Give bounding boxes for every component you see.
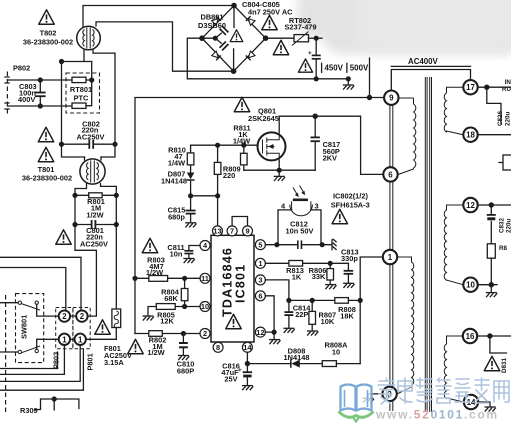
svg-text:T802: T802 [40, 29, 57, 38]
capacitor C810 [179, 334, 188, 355]
node source row [277, 168, 282, 173]
warning triangle left of RT802 [273, 40, 288, 54]
wire bridge plus to RT802 [266, 37, 294, 39]
svg-text:10: 10 [332, 347, 340, 356]
wire nested feed to P801 pin2 top [0, 257, 81, 310]
ground on bridge minus rail [343, 79, 354, 90]
diode D807 [187, 173, 195, 196]
resistor R808A [322, 361, 360, 367]
transformer pin 18 [463, 128, 477, 142]
wire left edge to SW801 lower [0, 351, 18, 353]
capacitor C815 [186, 196, 196, 222]
ground below C813 [343, 283, 354, 288]
wire C826 branch [487, 87, 501, 124]
wire R808 to feedback vertical [348, 299, 360, 301]
node C803 bottom [38, 103, 43, 108]
resistor R803 [135, 276, 200, 282]
node row left [188, 193, 193, 198]
node rail junction [367, 95, 372, 100]
svg-text:8: 8 [216, 343, 220, 352]
transformer pin 12 [463, 198, 477, 212]
connector pin P803-1 [59, 334, 70, 345]
capacitor C804 (inside bridge upper) [220, 26, 229, 35]
connector edge dashed left bottom [5, 295, 7, 415]
svg-text:1: 1 [388, 253, 393, 262]
svg-text:P802: P802 [13, 64, 30, 73]
svg-text:680P: 680P [177, 367, 194, 376]
ground below R807 [307, 331, 318, 336]
wire left rail jog down to P801 pin2 [75, 225, 96, 317]
svg-text:C826: C826 [497, 110, 504, 126]
connector pin P801-2 [76, 310, 87, 321]
ground at pin14 [485, 407, 496, 412]
winding feedback 1-3 [397, 257, 414, 394]
svg-text:AC400V: AC400V [408, 57, 439, 66]
resistor R8xx snubber [487, 244, 495, 285]
wire lower row to R808 [289, 299, 335, 301]
optocoupler IC802 photodiode side [278, 186, 321, 245]
transformer pin 14 [464, 395, 478, 409]
node bridge apex [231, 3, 237, 9]
svg-text:10n 50V: 10n 50V [286, 227, 314, 236]
node R801 left [72, 193, 77, 198]
wire left edge bottom return [0, 349, 83, 390]
wire zener branch [490, 336, 507, 353]
svg-text:10: 10 [201, 302, 209, 311]
resistor R805 [148, 304, 175, 315]
pin 14 [242, 342, 252, 352]
ground below C816 [242, 386, 253, 391]
wire pin14 to C816 row [246, 352, 248, 363]
pin 10 [200, 302, 210, 312]
wire pin14 to ground [478, 402, 490, 406]
node pin16 [487, 333, 492, 338]
wire pin10 output [478, 284, 497, 286]
svg-text:1/4W: 1/4W [233, 137, 250, 146]
warning triangle below RT802 [298, 59, 312, 72]
node T802 bottom-left [59, 59, 64, 64]
wire left rail P802/C803 node down to C802 left [61, 62, 63, 145]
warning triangle above T802 [39, 10, 54, 24]
wire transformer pin1 to feedback vertical down to R808A row [360, 257, 383, 364]
wire P801 pin1 down to left edge [0, 345, 80, 381]
svg-text:3: 3 [258, 276, 262, 285]
pin 5 [255, 240, 265, 250]
op-amp-style IC U801 TDA16846 box [211, 235, 254, 342]
bridge rectifier DB801 diamond [202, 6, 266, 72]
svg-text:12: 12 [466, 201, 475, 210]
wire Q801 drain node to transformer pin6 [279, 116, 383, 174]
svg-text:220u: 220u [505, 111, 511, 126]
transformer pin 6 [383, 167, 397, 181]
wire pin1 row [265, 262, 348, 264]
winding secondary 16-14 [444, 336, 463, 402]
wire SW801 lower to P803 pin1 [37, 339, 59, 349]
svg-text:9: 9 [245, 227, 249, 236]
node C816 top [245, 361, 250, 366]
resistor R811 [241, 145, 248, 170]
svg-text:220u: 220u [506, 218, 511, 233]
label 500V with tick [347, 63, 369, 72]
switch SW801 upper contacts and blade [18, 301, 40, 310]
ground below C810 [178, 356, 189, 361]
wire P803 pin1 down to left edge [0, 345, 64, 374]
capacitor C813 [344, 263, 354, 282]
diode DB801 upper-left [212, 16, 221, 25]
wire AC400V measure bracket [391, 66, 470, 90]
transformer pin 10 [463, 278, 477, 292]
svg-text:P801: P801 [86, 353, 95, 370]
thermistor RT801 dashed box [66, 73, 100, 113]
pin 4 [200, 241, 210, 251]
svg-text:SW801: SW801 [20, 315, 29, 339]
ground below pin10 wire [486, 285, 497, 298]
capacitor C802 [62, 140, 116, 149]
svg-text:PTC: PTC [74, 94, 89, 103]
svg-text:SFH615A-3: SFH615A-3 [331, 201, 370, 210]
capacitor C812 [298, 240, 302, 249]
svg-text:1/2W: 1/2W [147, 348, 164, 357]
node R804 bottom [182, 304, 187, 309]
svg-text:R309: R309 [20, 406, 38, 415]
wire nested feed to P803 pin2 top [0, 268, 66, 311]
svg-text:7: 7 [230, 227, 234, 236]
node pin12 [489, 202, 494, 207]
svg-text:680p: 680p [168, 213, 185, 222]
svg-text:P803: P803 [52, 352, 61, 369]
node row right [215, 193, 220, 198]
mosfet Q801 [258, 132, 286, 160]
ground below Q801 source [274, 170, 285, 181]
connector pin P803-2 [59, 310, 70, 321]
resistor R813 [289, 261, 303, 267]
capacitor C803 [35, 80, 46, 106]
transformer pin 9 [384, 91, 398, 105]
winding secondary 12-10 [444, 205, 463, 285]
node lower row R807 [310, 298, 315, 303]
svg-text:1N4148: 1N4148 [161, 177, 187, 186]
pin 13 [213, 226, 223, 236]
ground below C815 [185, 223, 196, 228]
pin 11 [200, 273, 210, 283]
wire blob vertical to rail [369, 58, 371, 98]
svg-text:2SK2645: 2SK2645 [248, 114, 279, 123]
svg-text:1: 1 [78, 335, 83, 344]
node bridge left [199, 35, 205, 41]
svg-text:10K: 10K [321, 317, 335, 326]
wire pin3 to lower row [265, 280, 289, 301]
svg-text:11: 11 [201, 274, 209, 283]
resistor RT801 top element [72, 77, 86, 82]
node C801 left [72, 222, 77, 227]
capacitor C832 snubber [487, 205, 496, 244]
svg-text:18K: 18K [340, 312, 354, 321]
watermark book base (green) [339, 412, 374, 418]
node pin5 row left [274, 242, 279, 247]
svg-text:R8: R8 [499, 245, 508, 252]
node bridge bottom [231, 68, 237, 74]
ground sideways right of C812 [332, 239, 337, 250]
node RT801 right [89, 77, 94, 82]
node pin17 [484, 85, 489, 90]
wire between pin1 circles [70, 338, 75, 340]
diode DB801 lower-right [246, 51, 255, 60]
svg-text:3.15A: 3.15A [104, 358, 124, 367]
resistor R809 [214, 145, 221, 196]
connector P802 (dashed, cut at edge) [6, 72, 8, 114]
watermark book icon [341, 385, 372, 411]
svg-text:10: 10 [466, 281, 475, 290]
wire bridge minus rail [187, 38, 348, 79]
svg-text:17: 17 [466, 83, 475, 92]
warning triangle top near C804 [262, 15, 277, 29]
warning triangle inside IC801 [226, 314, 241, 328]
pin 3 [255, 275, 265, 285]
svg-text:22P: 22P [295, 310, 308, 319]
svg-text:5: 5 [258, 240, 262, 249]
resistor R808 [335, 298, 349, 304]
resistor R806 [327, 263, 334, 283]
capacitor C817 [311, 116, 320, 170]
resistor R801 [89, 193, 102, 198]
resistor RT801 bottom element [72, 103, 86, 108]
wire R801 row [75, 194, 116, 196]
pin 6 [255, 291, 265, 301]
wire left edge to SW801 upper [0, 302, 18, 304]
winding primary 9-6 [399, 98, 416, 174]
svg-text:450V: 450V [325, 64, 344, 73]
svg-text:4n7 250V AC: 4n7 250V AC [248, 8, 293, 17]
node gate row R809 [215, 143, 220, 148]
svg-text:36-238300-002: 36-238300-002 [23, 38, 73, 47]
svg-text:36-238300-002: 36-238300-002 [22, 174, 72, 183]
svg-text:D831: D831 [501, 357, 508, 373]
svg-text:IN: IN [505, 79, 511, 86]
wire top AC run from T802 to bridge apex [83, 6, 234, 27]
warning triangle near F801 [95, 320, 110, 334]
svg-text:TDA16846: TDA16846 [221, 247, 235, 317]
node R309 [52, 396, 57, 401]
resistor R804 [181, 278, 188, 306]
node R802 right / C810 top [181, 331, 186, 336]
transformer T802 [77, 26, 101, 50]
ground below R806 [325, 285, 336, 290]
resistor R810 [187, 145, 194, 172]
transformer pin 17 [463, 80, 477, 94]
svg-text:1/2W: 1/2W [86, 211, 103, 220]
warning triangle inside bridge [230, 30, 243, 42]
ground below C814 [283, 328, 294, 333]
node C802 right [112, 142, 117, 147]
wire transformer primary-side long pair [390, 104, 393, 411]
node bridge right [263, 35, 269, 41]
transformer T803 core [425, 77, 431, 412]
warning triangle above Q801 [234, 97, 249, 111]
connector pin P801-1 [75, 334, 86, 345]
capacitor C814 [284, 300, 293, 327]
node C817 top [313, 114, 318, 119]
wire pin18 output [478, 134, 511, 136]
svg-text:2: 2 [62, 312, 67, 321]
node ground junction on minus rail [346, 76, 351, 81]
svg-text:IC801: IC801 [234, 264, 248, 303]
transformer T801 [80, 157, 105, 184]
svg-text:2KV: 2KV [323, 154, 337, 163]
node lower row left [286, 298, 291, 303]
svg-text:2: 2 [80, 312, 85, 321]
svg-text:3: 3 [315, 202, 319, 211]
switch SW801 lower contacts and blade [18, 346, 40, 354]
svg-text:9: 9 [389, 94, 394, 103]
node R801 right [114, 193, 119, 198]
svg-text:500V: 500V [350, 64, 369, 73]
svg-text:www.520101.com: www.520101.com [375, 408, 499, 422]
wire SW801 upper to P803 pin2 [37, 304, 59, 316]
wire bridge inner cap links [202, 6, 234, 72]
transformer pin 1 [383, 250, 397, 264]
svg-text:1N4148: 1N4148 [284, 353, 310, 362]
svg-text:68K: 68K [164, 294, 178, 303]
wire 450V rail to transformer pin9 and left rail down [135, 98, 384, 334]
switch SW801 dashed box [16, 294, 44, 363]
capacitor C805 (inside bridge lower) [220, 41, 229, 50]
warning triangle above R803 [142, 238, 157, 252]
node pin1 row R806 [328, 261, 333, 266]
wire rails R801 to C801 [75, 195, 116, 224]
warning triangle below IC802 label [332, 209, 347, 223]
wire pin16 output [477, 335, 511, 337]
node C801 right [114, 222, 119, 227]
wire pin10 row [175, 306, 200, 308]
wire P802 pin1 to RT801 [7, 79, 72, 81]
svg-text:400V: 400V [18, 95, 35, 104]
capacitor C818 [308, 38, 321, 79]
diode DB801 lower-left [212, 51, 221, 60]
node C818 bottom junction [314, 76, 319, 81]
warning triangle left of R802 [128, 339, 143, 353]
wire C802 to T801 top legs [62, 144, 116, 157]
wire fuse bottom to P801 pin1 [86, 328, 116, 340]
wire source row with ground [244, 161, 315, 171]
svg-text:AC250V: AC250V [77, 133, 105, 142]
thermistor RT802 [292, 32, 309, 46]
wire R309 hook [36, 399, 79, 410]
svg-text:13: 13 [213, 227, 221, 236]
node pin5 row right [320, 242, 325, 247]
ground below R805 [143, 316, 154, 321]
ground for pins 6-12 [265, 296, 280, 344]
warning triangle near C801 [56, 230, 71, 244]
svg-text:12: 12 [256, 328, 264, 337]
svg-text:18: 18 [466, 131, 475, 140]
wire between pin2 circles [70, 315, 76, 317]
wire T802 bottom-right leg down to C802 right [93, 50, 115, 145]
svg-text:D3SB60: D3SB60 [198, 21, 226, 30]
wire T802 right leg to bridge bottom vertex [96, 22, 234, 71]
diode DB801 upper-right [246, 16, 255, 25]
node C803 top [38, 77, 43, 82]
node R803 right [182, 276, 187, 281]
svg-text:33K: 33K [312, 272, 326, 281]
svg-text:AC250V: AC250V [80, 240, 108, 249]
svg-text:14: 14 [243, 343, 252, 352]
svg-text:330p: 330p [341, 254, 358, 263]
wire P802 pin2 to RT801 bottom [7, 105, 72, 107]
erased watermark gray blob top right [297, 0, 511, 38]
component stub right edge [499, 155, 511, 170]
node gate row R811 [241, 143, 246, 148]
wire bracket IC pins 7-9 [232, 217, 247, 226]
connector P801 dashed box [73, 308, 90, 349]
resistor R802 [135, 331, 200, 337]
connector P803 dashed box [56, 308, 73, 349]
node R803 left [132, 276, 137, 281]
svg-text:+: + [308, 50, 312, 57]
wire pin4 to C811 [189, 246, 200, 258]
label 450V with tick [322, 63, 344, 72]
node RT802 output [314, 36, 319, 41]
wire T801 bottom legs to R801 rails [75, 184, 116, 196]
svg-text:1/2W: 1/2W [146, 268, 163, 277]
svg-text:10n: 10n [170, 250, 183, 259]
svg-text:1K: 1K [292, 273, 302, 282]
wire pin3 to ground [368, 394, 382, 397]
svg-text:S237-479: S237-479 [284, 23, 316, 32]
transformer pin 3 [382, 387, 396, 401]
wire RT801 right side [86, 62, 92, 106]
capacitor C816 electrolytic [238, 364, 252, 385]
pin 7 [227, 226, 237, 236]
warning triangle D831 [484, 356, 499, 370]
svg-text:IC802(1/2): IC802(1/2) [333, 192, 368, 201]
winding secondary 17-18 [444, 87, 463, 135]
svg-text:16: 16 [466, 332, 475, 341]
wire pin12 output [478, 204, 511, 206]
watermark chinese characters (stylized) [378, 378, 509, 404]
wire right rail C801 down to fuse [115, 225, 117, 310]
wire gate row [191, 144, 258, 146]
svg-text:1/4W: 1/4W [168, 158, 185, 167]
svg-text:25V: 25V [224, 375, 237, 384]
node bridge inner [213, 36, 218, 41]
node feedback vertical [358, 298, 363, 303]
wire row to IC pin13 [191, 196, 218, 226]
pin 2 [200, 329, 210, 339]
wire T802 bottom-left leg to node [62, 50, 92, 62]
wire pin5 row [265, 244, 331, 246]
svg-text:6: 6 [388, 170, 393, 179]
pin 12 [255, 327, 265, 337]
svg-text:6: 6 [258, 292, 262, 301]
svg-text:220: 220 [223, 171, 235, 180]
capacitor C801 [75, 220, 116, 229]
resistor R807 [309, 300, 316, 330]
transformer pin 16 [463, 329, 477, 343]
warning triangle pair left [38, 127, 53, 141]
svg-text:RU: RU [502, 86, 511, 93]
diode D808 [291, 359, 323, 367]
ground below C811 [183, 259, 194, 264]
svg-text:1: 1 [62, 335, 67, 344]
pin 9 [243, 226, 253, 236]
svg-text:12K: 12K [160, 317, 174, 326]
wire left edge return under P803 [0, 352, 58, 369]
node C802 left [59, 142, 64, 147]
svg-text:1: 1 [258, 259, 262, 268]
capacitor C811 [184, 251, 193, 254]
wire RT802 to blob node [309, 37, 323, 39]
ground at pin3 [363, 398, 374, 403]
